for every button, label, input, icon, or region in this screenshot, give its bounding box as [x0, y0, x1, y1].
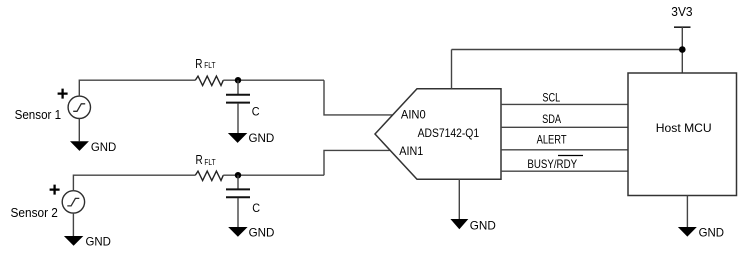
- wire BUSY/RDY: [501, 170, 628, 172]
- svg-text:ADS7142-Q1: ADS7142-Q1: [418, 126, 480, 140]
- voltage source V1 (Sensor 1): [68, 96, 90, 118]
- svg-text:AIN0: AIN0: [401, 108, 426, 122]
- wire SCL: [501, 103, 628, 105]
- svg-text:BUSY/RDY: BUSY/RDY: [527, 157, 577, 171]
- label R2 RFLT: [196, 152, 216, 167]
- plus polarity mark sensor 2: [50, 185, 60, 195]
- svg-text:SCL: SCL: [542, 90, 560, 104]
- wire C2 to ground: [237, 198, 239, 227]
- node B junction dot: [235, 172, 241, 178]
- svg-text:FLT: FLT: [204, 61, 215, 70]
- svg-text:FLT: FLT: [204, 158, 215, 167]
- wire SDA: [501, 126, 628, 128]
- wire R1 to node A: [223, 79, 324, 81]
- ground MCU: [678, 227, 697, 237]
- plus polarity mark sensor 1: [58, 89, 68, 99]
- wire node A to AIN0: [324, 80, 393, 115]
- Host MCU U2: [628, 73, 737, 196]
- power symbol 3V3: [674, 27, 691, 73]
- svg-text:Sensor 2: Sensor 2: [11, 205, 58, 220]
- wire R2 to node B: [223, 174, 324, 176]
- svg-text:3V3: 3V3: [671, 4, 692, 19]
- ADC U1 ADS7142-Q1: [375, 89, 501, 180]
- wire sensor2 top to R2: [73, 175, 195, 191]
- svg-text:R: R: [195, 56, 202, 71]
- ground sensor 2: [64, 236, 83, 246]
- ground C1: [228, 133, 247, 143]
- svg-text:GND: GND: [470, 218, 496, 232]
- svg-text:C: C: [252, 105, 260, 119]
- resistor R1: [195, 76, 223, 85]
- voltage source V2 (Sensor 2): [62, 191, 84, 213]
- node 3V3 junction dot: [679, 46, 686, 53]
- wire sensor2 bottom to ground: [72, 213, 74, 236]
- svg-text:Sensor 1: Sensor 1: [15, 107, 62, 122]
- svg-text:R: R: [196, 152, 203, 167]
- wire MCU GND pin: [686, 196, 688, 228]
- label R1 RFLT: [195, 56, 215, 71]
- svg-text:C: C: [252, 201, 260, 215]
- svg-text:GND: GND: [91, 140, 117, 154]
- wire U1 GND pin: [458, 179, 460, 219]
- wire ALERT: [501, 149, 628, 151]
- net label BUSY/RDY with overline on RDY: [527, 156, 583, 172]
- capacitor C2: [226, 189, 250, 197]
- wire U1 AVDD to 3V3 rail: [451, 50, 453, 89]
- svg-text:ALERT: ALERT: [537, 132, 568, 146]
- ground C2: [228, 227, 247, 237]
- svg-text:Host MCU: Host MCU: [656, 121, 712, 135]
- 3V3 rail wire: [452, 49, 683, 51]
- svg-text:GND: GND: [86, 235, 112, 249]
- svg-text:GND: GND: [249, 226, 275, 240]
- ground sensor 1: [70, 141, 89, 151]
- resistor R2: [195, 171, 223, 180]
- capacitor C1: [226, 95, 250, 103]
- wire node B down to C2: [237, 175, 239, 189]
- wire sensor1 top to R1: [79, 80, 195, 96]
- node A junction dot: [235, 77, 241, 83]
- wire C1 to ground: [237, 103, 239, 133]
- wire sensor1 bottom to ground: [78, 119, 80, 142]
- wire node A down to C1: [237, 80, 239, 94]
- ground U1: [450, 219, 468, 229]
- svg-text:AIN1: AIN1: [399, 144, 423, 158]
- svg-text:GND: GND: [699, 225, 725, 239]
- wire node B to AIN1: [324, 150, 390, 175]
- svg-text:GND: GND: [249, 131, 275, 145]
- svg-text:SDA: SDA: [542, 112, 561, 126]
